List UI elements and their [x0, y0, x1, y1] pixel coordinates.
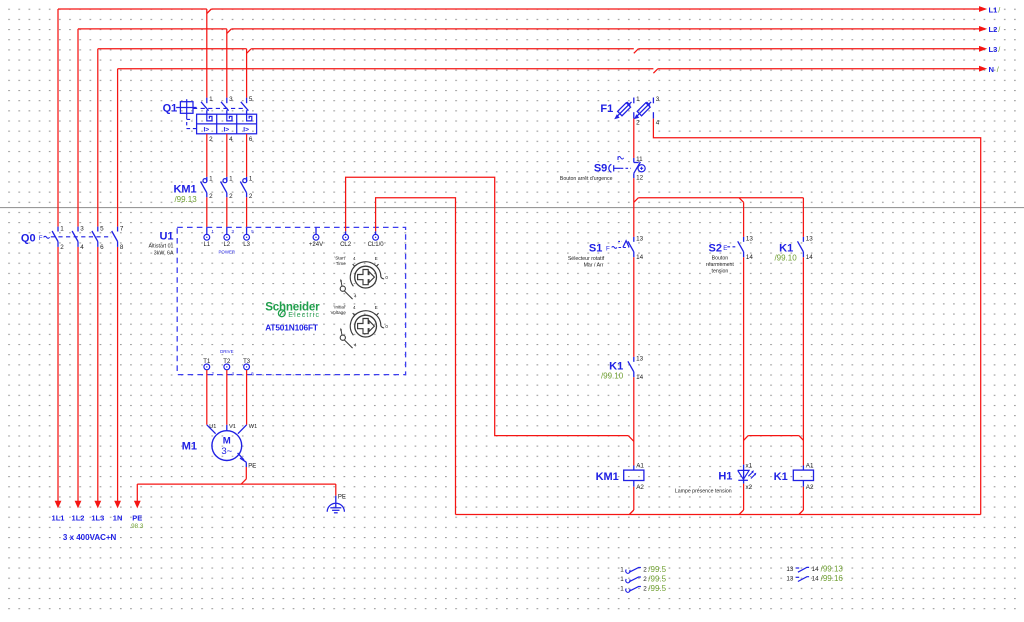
wire KM1 to U1 terminal 3	[246, 197, 248, 227]
svg-text:A2: A2	[636, 484, 644, 491]
svg-text:L2: L2	[989, 25, 998, 34]
svg-text:DRIVE: DRIVE	[220, 349, 233, 354]
svg-text:/99.5: /99.5	[648, 584, 666, 593]
contactor KM1 main contact 2	[226, 177, 228, 182]
svg-text:6: 6	[249, 136, 253, 143]
svg-text:CL2: CL2	[340, 242, 352, 248]
svg-text:PE: PE	[248, 463, 256, 469]
drive U1 terminal L3	[244, 234, 250, 240]
svg-text:L3: L3	[243, 242, 250, 248]
wire to S2 contact	[743, 202, 745, 237]
wire to K1 contact	[802, 198, 804, 237]
wire T1 to motor	[206, 370, 208, 425]
drive U1 terminal CL1/0	[373, 234, 379, 240]
wire rail L1	[58, 8, 207, 10]
drive U1 terminal CL2	[343, 234, 349, 240]
svg-text:K1: K1	[774, 471, 788, 483]
fuse F1 pole 3-4	[652, 98, 654, 104]
svg-text:Sélecteur rotatif: Sélecteur rotatif	[568, 256, 605, 262]
svg-text:7: 7	[120, 225, 124, 232]
svg-text:Q0: Q0	[21, 233, 36, 245]
svg-text:H1: H1	[718, 470, 732, 482]
svg-text:/99.10: /99.10	[601, 372, 624, 381]
breaker Q1 pole 5-6	[246, 98, 248, 104]
svg-text:/99.5: /99.5	[648, 565, 666, 574]
svg-text:E: E	[723, 245, 727, 252]
svg-text:Lampe présence tension: Lampe présence tension	[675, 489, 732, 495]
svg-text:3~: 3~	[221, 446, 232, 457]
wire CL2 up and over	[345, 231, 347, 234]
svg-text:4: 4	[353, 256, 356, 261]
node L3 arrow	[979, 46, 987, 52]
svg-text:/99.10: /99.10	[774, 254, 797, 263]
svg-text:2: 2	[209, 193, 213, 200]
svg-text:13: 13	[786, 566, 794, 573]
wire feeder L1 down to Q0	[57, 9, 59, 227]
wire branch S9 to S2 and K1	[634, 198, 639, 203]
pushbutton S9 mushroom head	[609, 164, 612, 172]
knob Initial inner circle	[355, 315, 377, 337]
svg-text:PE: PE	[132, 513, 142, 522]
wire F1 pole2 to N-return rail	[653, 119, 980, 515]
breaker Q1 magnetic element pole 3	[227, 114, 232, 121]
wire T2 to motor	[226, 370, 228, 425]
svg-text:4: 4	[354, 294, 357, 299]
drive U1 terminal +24V	[315, 227, 317, 234]
wire bottom return rail	[456, 514, 981, 516]
svg-text:/: /	[998, 5, 1000, 14]
svg-text:F1: F1	[600, 103, 613, 115]
svg-text:14: 14	[812, 566, 820, 573]
lamp H1 symbol	[743, 465, 745, 484]
wire Q1 to KM1 pole 2	[226, 134, 228, 177]
wire rail L3	[98, 48, 247, 50]
motor M1 PE tick	[238, 453, 244, 460]
svg-text:2: 2	[643, 585, 647, 592]
svg-text:/99.13: /99.13	[174, 195, 197, 204]
node arrow 1N	[114, 501, 121, 509]
pushbutton S9 turn-release symbol	[638, 165, 645, 172]
wire PE horizontal	[137, 483, 335, 485]
svg-text:4: 4	[656, 119, 660, 126]
svg-text:1: 1	[620, 576, 624, 583]
svg-text:2: 2	[249, 193, 253, 200]
svg-text:'Start': 'Start'	[334, 256, 346, 261]
svg-text:2: 2	[209, 136, 213, 143]
node arrow 1L3	[94, 501, 101, 509]
svg-text:T2: T2	[223, 359, 231, 365]
wire rail N	[118, 68, 654, 70]
switch Q0 pole 1-2	[57, 227, 59, 232]
wire PE to earth	[335, 484, 337, 496]
contactor KM1 main contact 1	[206, 177, 208, 182]
drive U1 terminal T1	[204, 364, 210, 370]
wire feeder N Q0 to bottom arrow	[117, 247, 119, 501]
wire L1 rail to Q1 pole	[206, 9, 208, 98]
svg-text:E: E	[375, 305, 378, 310]
svg-text:I>: I>	[223, 127, 229, 134]
svg-text:S2: S2	[709, 243, 722, 255]
svg-text:M1: M1	[182, 441, 197, 453]
svg-text:Bouton arrêt d'urgence: Bouton arrêt d'urgence	[560, 176, 613, 182]
svg-text:Bouton: Bouton	[712, 256, 729, 262]
drive U1 terminal T2	[224, 364, 230, 370]
contactor coil KM1	[633, 466, 635, 471]
svg-text:13: 13	[806, 236, 814, 243]
wire CL1/0 up and over to bottom rail	[375, 231, 377, 234]
svg-text:F: F	[606, 245, 610, 252]
svg-text:x1: x1	[746, 463, 753, 470]
svg-text:4: 4	[80, 244, 84, 251]
svg-text:/99.13: /99.13	[821, 565, 844, 574]
wire KM1 to U1 terminal 1	[206, 197, 208, 227]
breaker Q1 pole 3-4	[226, 98, 228, 104]
svg-text:5: 5	[249, 96, 253, 103]
svg-text:6: 6	[100, 244, 104, 251]
knob Start outer arc	[350, 262, 381, 287]
svg-text:4: 4	[354, 343, 357, 348]
svg-text:1N: 1N	[113, 513, 123, 522]
relay contact K1 top	[802, 237, 804, 242]
drive U1 enclosure	[177, 227, 405, 374]
drive U1 terminal L1	[204, 234, 210, 240]
svg-text:E: E	[375, 256, 378, 261]
svg-text:1L2: 1L2	[72, 513, 85, 522]
svg-text:KM1: KM1	[173, 183, 196, 195]
breaker Q1 overload box	[197, 114, 257, 134]
svg-text:13: 13	[636, 356, 644, 363]
page separator line	[0, 207, 1024, 209]
svg-text:2: 2	[636, 119, 640, 126]
pushbutton S2 contact	[743, 237, 745, 242]
wire KM1 to U1 terminal 2	[226, 197, 228, 227]
svg-text:4: 4	[353, 305, 356, 310]
svg-text:Time: Time	[336, 261, 346, 266]
svg-text:3: 3	[229, 96, 233, 103]
wire feeder L3 Q0 to bottom arrow	[97, 247, 99, 501]
wire F1 pole1 to S9	[633, 119, 635, 158]
wire K1 coil to rail	[802, 487, 804, 510]
svg-text:3kW, 6A: 3kW, 6A	[154, 251, 174, 257]
svg-text:Voltage: Voltage	[330, 310, 346, 315]
svg-text:K1: K1	[609, 361, 623, 373]
svg-text:S1: S1	[589, 243, 602, 255]
svg-text:13: 13	[636, 236, 644, 243]
knob Start cross arrow	[358, 270, 375, 285]
node arrow 1L1	[55, 501, 62, 509]
svg-text:Altistart 01: Altistart 01	[148, 244, 173, 250]
wire H1 to K1 coil link	[748, 435, 799, 437]
wire KM1 coil to rail	[633, 487, 635, 510]
node arrow 1L2	[75, 501, 82, 509]
knob Start inner circle	[355, 266, 377, 288]
svg-text:Q1: Q1	[163, 103, 178, 115]
wire feeder L3 down to Q0	[97, 49, 99, 227]
svg-text:1: 1	[636, 96, 640, 103]
switch Q0 pole 5-6	[97, 227, 99, 232]
knob Initial outer arc	[350, 311, 381, 336]
svg-text:14: 14	[812, 575, 820, 582]
pushbutton S9 actuator linkage	[621, 167, 631, 169]
svg-text:0: 0	[385, 275, 388, 280]
svg-text:/: /	[998, 25, 1000, 34]
svg-text:/: /	[997, 65, 999, 74]
svg-text:U1: U1	[209, 424, 216, 430]
svg-text:1L3: 1L3	[91, 513, 104, 522]
knob Initial cross arrow	[358, 319, 375, 334]
node L1 arrow	[979, 6, 987, 12]
breaker Q1 magnetic element pole 5	[247, 114, 252, 121]
svg-text:1: 1	[60, 225, 64, 232]
svg-text:14: 14	[746, 254, 754, 261]
svg-text:98.3: 98.3	[131, 523, 144, 530]
knob Initial pointer line	[344, 340, 352, 348]
breaker Q1 trip linkage	[193, 107, 243, 109]
wire L3 rail to Q1 pole	[246, 49, 248, 98]
wire feeder L2 down to Q0	[77, 29, 79, 227]
svg-text:L1: L1	[203, 242, 210, 248]
svg-text:3: 3	[80, 225, 84, 232]
wire S9 branch down to S1	[633, 178, 635, 237]
svg-text:POWER: POWER	[219, 250, 236, 255]
svg-text:PE: PE	[338, 495, 346, 501]
motor M1	[212, 431, 242, 461]
svg-text:1: 1	[620, 566, 624, 573]
wire Q1 to KM1 pole 3	[246, 134, 248, 177]
svg-text:A1: A1	[806, 463, 814, 470]
svg-text:14: 14	[806, 254, 814, 261]
svg-text:Electric: Electric	[288, 312, 320, 319]
svg-text:1: 1	[209, 96, 213, 103]
wire rail L2	[78, 28, 227, 30]
wire S1 to K1 contact	[633, 257, 635, 357]
svg-text:AT501N106FT: AT501N106FT	[265, 322, 318, 332]
svg-text:+24V: +24V	[309, 242, 323, 248]
drive U1 terminal T3	[244, 364, 250, 370]
svg-text:'Initial': 'Initial'	[333, 305, 346, 310]
pushbutton S9 contact NC	[633, 158, 635, 163]
breaker Q1 magnetic element pole 1	[207, 114, 212, 121]
svg-text:N: N	[989, 65, 994, 74]
selector S1 contact	[633, 237, 635, 242]
switch Q0 pole 7-8	[117, 227, 119, 232]
contactor KM1 main contact 3	[246, 177, 248, 182]
svg-text:1: 1	[209, 176, 213, 183]
svg-text:/99.5: /99.5	[648, 574, 666, 583]
node N arrow	[979, 66, 987, 72]
ground earth symbol	[327, 503, 344, 512]
svg-text:T1: T1	[203, 359, 211, 365]
svg-text:1: 1	[249, 176, 253, 183]
svg-text:2: 2	[60, 244, 64, 251]
relay coil K1	[802, 466, 804, 471]
svg-text:F: F	[39, 235, 43, 242]
svg-text:tension: tension	[712, 269, 729, 275]
svg-text:A2: A2	[806, 484, 814, 491]
svg-text:0: 0	[385, 324, 388, 329]
svg-text:V1: V1	[229, 424, 236, 430]
svg-text:U1: U1	[159, 231, 173, 243]
svg-text:/99.16: /99.16	[821, 574, 844, 583]
wire feeder L1 Q0 to bottom arrow	[57, 247, 59, 501]
wire K1 mid to KM1 coil	[633, 377, 635, 465]
svg-text:x2: x2	[746, 484, 753, 491]
wire L2 rail to Q1 pole	[226, 29, 228, 98]
svg-text:14: 14	[636, 374, 644, 381]
relay contact K1 mid	[633, 357, 635, 362]
breaker Q1 actuator	[180, 102, 193, 114]
node arrow PE	[134, 501, 141, 509]
wire feeder L2 Q0 to bottom arrow	[77, 247, 79, 501]
svg-text:13: 13	[746, 236, 754, 243]
breaker Q1 pole 1-2	[206, 98, 208, 104]
svg-text:Mar / Arr: Mar / Arr	[584, 262, 604, 268]
fuse F1 pole 1-2	[633, 98, 635, 104]
logo Schneider leaf	[278, 310, 285, 317]
knob Initial pointer	[340, 335, 345, 340]
svg-text:L2: L2	[223, 242, 230, 248]
svg-text:I>: I>	[203, 127, 209, 134]
wire T3 to motor	[246, 370, 248, 425]
svg-text:12: 12	[636, 174, 644, 181]
svg-text:3: 3	[656, 96, 660, 103]
svg-text:1L1: 1L1	[52, 513, 65, 522]
svg-text:S9: S9	[594, 163, 607, 175]
breaker Q1 trip linkage left	[186, 116, 188, 129]
wire S2 to H1	[743, 257, 745, 465]
svg-text:T3: T3	[243, 359, 251, 365]
wire Q1 to KM1 pole 1	[206, 134, 208, 177]
node L2 arrow	[979, 26, 987, 32]
svg-text:1: 1	[620, 585, 624, 592]
svg-text:11: 11	[636, 156, 643, 163]
wire motor PE down	[245, 467, 247, 479]
svg-text:réarmement: réarmement	[706, 262, 735, 268]
svg-text:I>: I>	[243, 127, 249, 134]
svg-text:/: /	[998, 45, 1000, 54]
svg-text:CL1/0: CL1/0	[368, 242, 385, 248]
svg-text:2: 2	[229, 193, 233, 200]
switch Q0 pole 3-4	[77, 227, 79, 232]
svg-text:L1: L1	[989, 5, 999, 14]
svg-text:1: 1	[229, 176, 233, 183]
knob Start pointer	[340, 286, 345, 291]
svg-text:L3: L3	[989, 45, 998, 54]
svg-text:2: 2	[643, 566, 647, 573]
wire feeder N down to Q0	[117, 69, 119, 227]
svg-text:5: 5	[100, 225, 104, 232]
svg-text:W1: W1	[249, 424, 257, 430]
svg-text:KM1: KM1	[596, 471, 619, 483]
svg-text:3 x 400VAC+N: 3 x 400VAC+N	[63, 533, 117, 542]
wire K1 contact to K1 coil	[802, 257, 804, 465]
svg-text:4: 4	[229, 136, 233, 143]
wire H1 to rail	[743, 484, 745, 510]
knob Start pointer line	[344, 291, 352, 299]
wire PE to arrow	[136, 484, 138, 501]
svg-text:2: 2	[643, 576, 647, 583]
svg-text:8: 8	[120, 244, 124, 251]
switch Q0 linkage	[51, 236, 112, 238]
drive U1 terminal L2	[224, 234, 230, 240]
svg-text:14: 14	[636, 254, 644, 261]
svg-text:A1: A1	[636, 463, 644, 470]
svg-text:13: 13	[786, 575, 794, 582]
